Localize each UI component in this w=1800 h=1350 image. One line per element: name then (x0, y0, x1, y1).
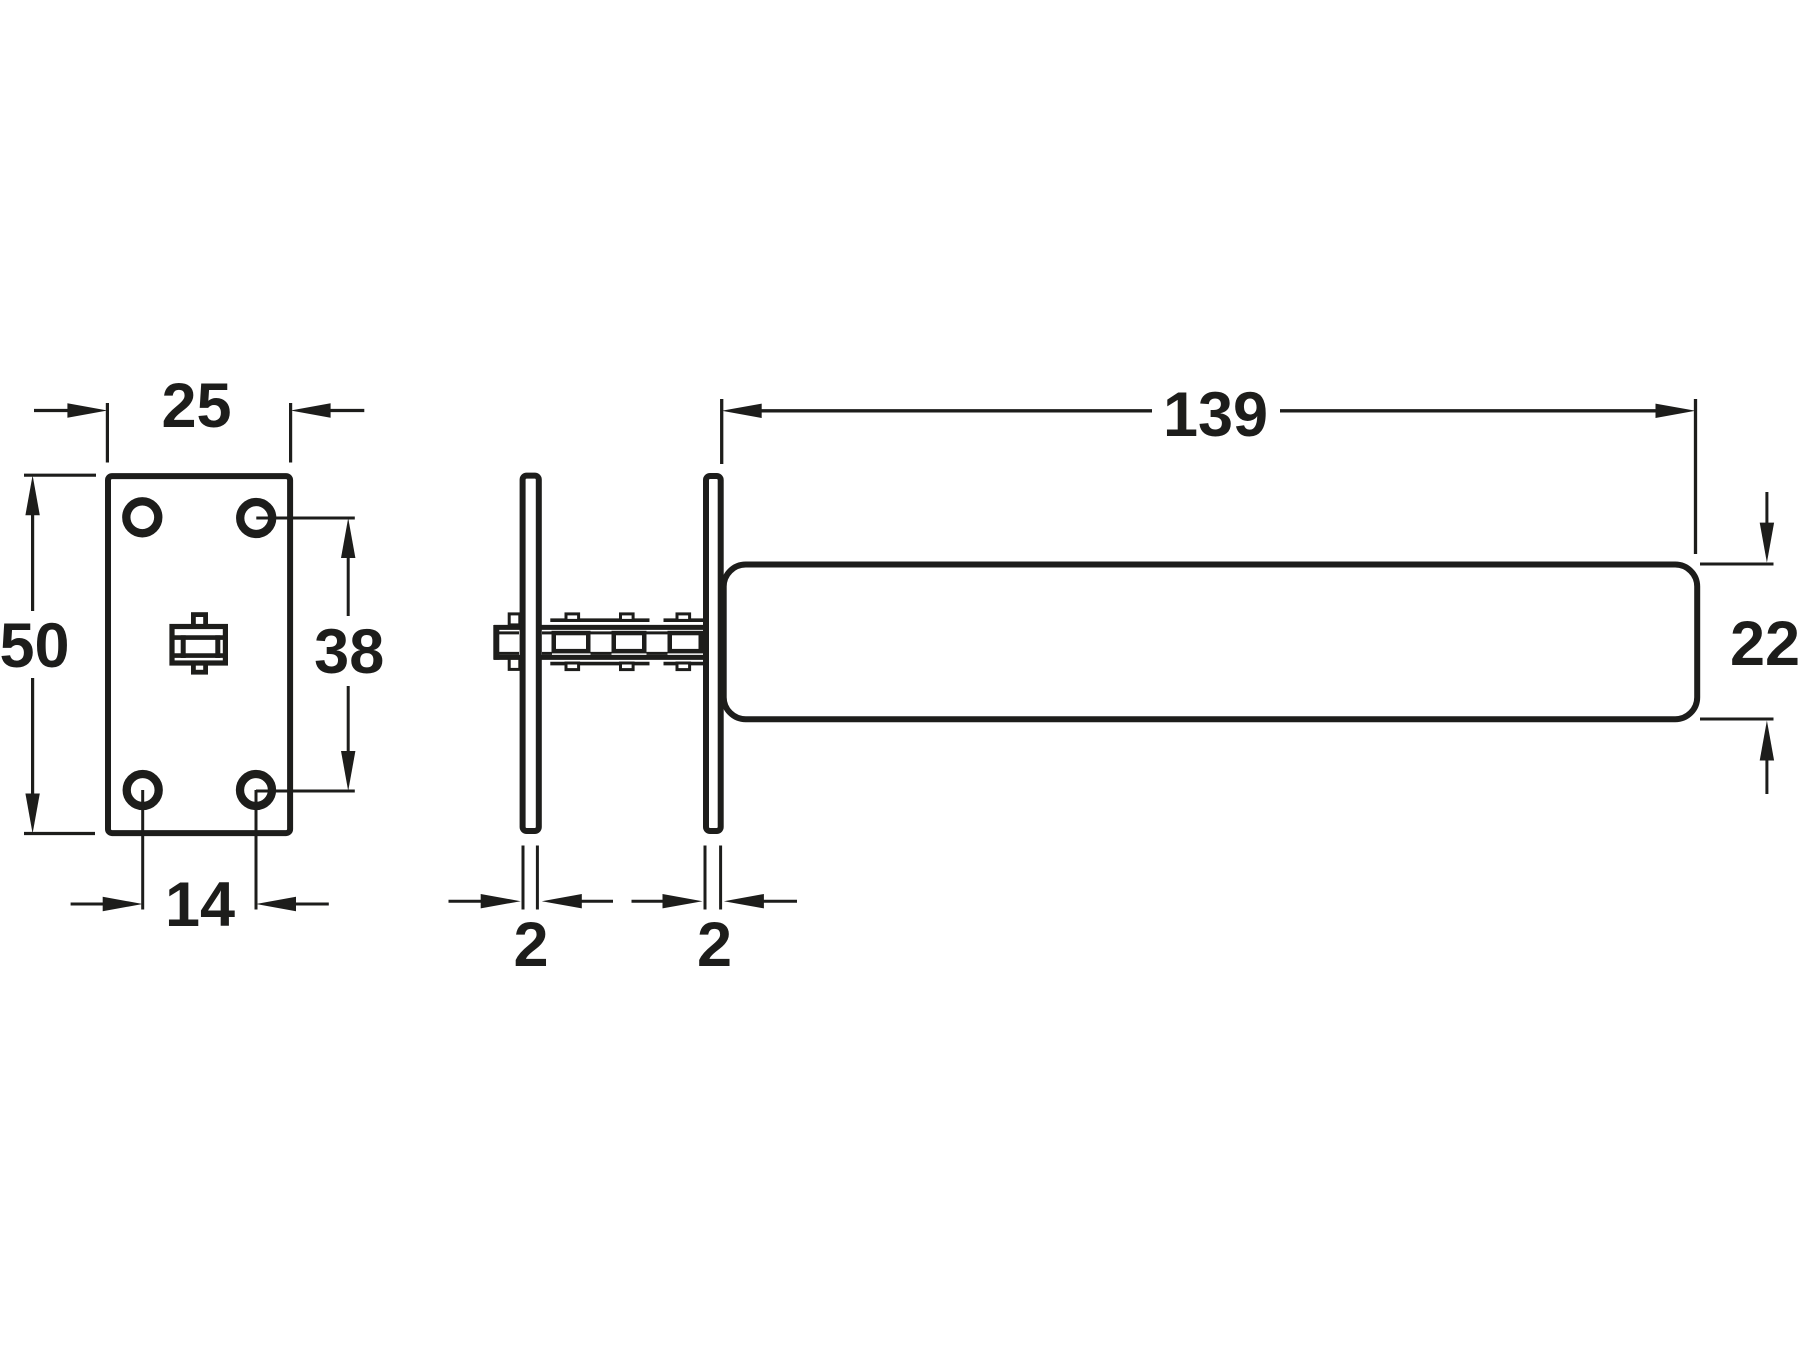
chain roller 3 (670, 633, 701, 651)
chain rail bottom (494, 655, 704, 660)
anchor plate 2 (side view) (706, 476, 721, 831)
chain anchor link (front view, center of plate) (172, 615, 225, 673)
inner link plate edges (499, 631, 519, 634)
chain left end cap (493, 625, 499, 660)
chain roller 1 (554, 633, 589, 651)
dimension 25 (plate width) (34, 403, 364, 463)
chain pin tabs top (509, 614, 520, 625)
chain pin tabs bottom (509, 658, 520, 669)
dimension 2 (plate 1 thickness) (449, 846, 614, 910)
hole top-right (240, 502, 272, 534)
hole bottom-right (240, 774, 272, 806)
hole bottom-left (127, 774, 159, 806)
svg-text:14: 14 (165, 870, 235, 940)
closer body (side view) (724, 565, 1697, 720)
chain rail top (494, 625, 704, 630)
dimension 14 (hole spacing horizontal) (71, 790, 329, 911)
dimension 50 (plate height) (24, 475, 96, 833)
roller chain (side view) (494, 614, 704, 670)
svg-text:50: 50 (0, 611, 70, 681)
svg-text:38: 38 (314, 617, 384, 687)
svg-text:2: 2 (697, 910, 732, 980)
svg-text:139: 139 (1163, 380, 1268, 450)
outer link plate edges (550, 618, 649, 622)
svg-text:2: 2 (513, 910, 548, 980)
svg-text:25: 25 (161, 371, 231, 441)
dimension 38 (hole spacing vertical) (256, 518, 355, 791)
dimension 22 (body height) (1700, 492, 1774, 794)
hole top-left (126, 501, 158, 533)
svg-text:22: 22 (1730, 609, 1800, 679)
dimension 2 (plate 2 thickness) (632, 846, 798, 910)
mounting plate (front view) (108, 476, 290, 833)
chain roller 2 (614, 633, 645, 651)
dimension 139 (body length) (722, 399, 1696, 554)
anchor plate 1 (side view) (523, 476, 539, 831)
